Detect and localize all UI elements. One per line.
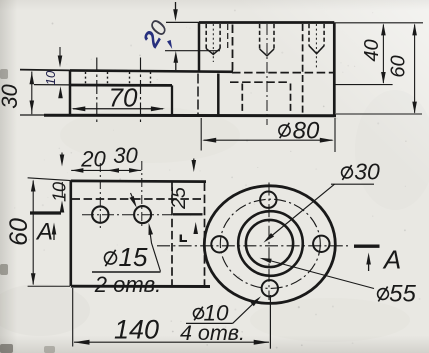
dimension 10 upper arrow: [59, 47, 61, 62]
dimension 30 line with arrows (left): [31, 72, 33, 115]
plan dimension 10 lower arrow: [61, 206, 63, 212]
section arrow right: [368, 258, 370, 271]
note underline: [92, 271, 161, 273]
extension of cylinder top edge to the right: [334, 22, 423, 24]
dimension 25 upper arrow: [193, 159, 195, 166]
thick section segment on centre line: [173, 213, 203, 215]
section plane mark A (right): [354, 244, 380, 247]
svg-text:25: 25: [168, 187, 190, 210]
front view: bottom edge of part: [20, 114, 44, 116]
svg-text:15: 15: [119, 242, 148, 272]
extension of cylinder top edge to the left: [166, 21, 199, 23]
front view: top edge of base plate: [20, 69, 70, 72]
plan view: hidden recess edge vertical: [171, 183, 173, 286]
hidden line: bore bottom depth 40: [230, 81, 288, 83]
leader line from note to hole 2: [149, 227, 160, 272]
extension line right of bottom edge: [336, 113, 422, 115]
inner bore circle diam 30: [246, 220, 293, 267]
front view: step line of plate: [34, 84, 70, 86]
plan view: hidden edge near circle: [204, 183, 206, 286]
bolt circle diam 55 (centre line): [220, 199, 320, 288]
blue arrowhead over dimension 20: [167, 40, 172, 49]
hidden left edge of cylinder below plate top: [197, 74, 199, 115]
section plane mark A (left): [30, 211, 61, 214]
dimensions 20 and 30 line: [71, 169, 141, 171]
drilled hole middle: hidden edges: [259, 24, 261, 49]
plan view: left edge: [70, 181, 73, 286]
svg-text:4 отв.: 4 отв.: [180, 321, 245, 345]
diameter 80 dimension line: [204, 139, 333, 141]
front view: inner vertical edge: [217, 74, 220, 116]
hole 1 axis line in front view: [96, 58, 98, 125]
hole 1 vertical centre line: [99, 163, 101, 228]
plan dimension 10 upper arrow: [61, 153, 63, 161]
svg-text:30: 30: [0, 84, 22, 109]
plan view: bottom edge: [71, 285, 210, 288]
extension line for 40: [335, 84, 393, 86]
scan smudge left edge: [0, 264, 8, 275]
dimension 70 arrows and line: [73, 108, 163, 110]
svg-text:A: A: [382, 245, 401, 275]
bolt hole right (diam 10): [313, 236, 329, 252]
svg-text:140: 140: [114, 315, 159, 345]
drilled hole middle: cone bottom: [260, 49, 274, 56]
svg-text:2 отв.: 2 отв.: [94, 272, 162, 297]
dimension 10 lower arrow: [60, 91, 62, 97]
scan smudge left edge upper: [0, 69, 8, 79]
svg-text:10: 10: [50, 182, 70, 202]
hole 2 vertical centre line: [141, 161, 143, 228]
underline of diam 30 note: [331, 183, 374, 185]
scan smudge bottom: [44, 346, 55, 353]
note diam 15 symbol: [103, 248, 119, 268]
middle boss circle: [238, 211, 303, 276]
section arrow left: [53, 229, 55, 240]
plan view: hidden step edge: [72, 198, 203, 200]
drilled hole left: extra hidden edge: [227, 24, 229, 49]
diameter 80 symbol: [277, 121, 291, 140]
bolt hole left (diam 10): [211, 236, 227, 252]
plan view: top edge: [71, 180, 206, 183]
note diam 10 underline: [186, 322, 233, 324]
vertical centre line of flange: [268, 183, 270, 301]
extension line: bore bottom depth 20: [165, 50, 220, 52]
hole 1 hidden edges in step strip: [85, 72, 87, 85]
front view: left edge of plate: [69, 70, 72, 115]
svg-text:30: 30: [354, 159, 380, 185]
dimension 25 lower arrow: [195, 228, 197, 234]
drilled hole right: axis: [315, 24, 317, 70]
front view: right edge of cylinder: [333, 23, 336, 116]
bolt hole top (diam 10): [260, 192, 276, 208]
bolt hole bottom (diam 10): [262, 280, 278, 296]
outer flange circle diam 80: [204, 186, 335, 304]
dimension 140 line: [74, 341, 269, 343]
svg-text:A: A: [35, 219, 53, 246]
drilled hole right: hidden edges: [308, 24, 310, 46]
hole 2 axis line in front view: [140, 58, 142, 125]
note diam 30 symbol: [340, 163, 354, 181]
plan view: extension of top edge to the left: [28, 178, 71, 181]
note diam 10 symbol: [192, 305, 205, 322]
svg-text:70: 70: [109, 83, 138, 113]
dimension 40 line with arrows: [382, 25, 384, 84]
diameter 80 extension lines: [200, 118, 202, 151]
hidden vertical right of center: [302, 24, 304, 114]
dimension 20 (blue) lower arrow: [175, 59, 177, 70]
svg-text:40: 40: [361, 39, 383, 61]
horizontal centre line through holes / section trace: [82, 214, 172, 216]
tick mark below 25: [180, 235, 182, 243]
drilled hole left: hidden edges: [205, 24, 207, 49]
vertical extension to dimension 140: [269, 295, 271, 349]
svg-text:20: 20: [80, 147, 106, 172]
svg-text:10: 10: [43, 70, 58, 85]
svg-text:60: 60: [388, 55, 410, 77]
drilled hole left: axis: [212, 24, 214, 62]
svg-text:80: 80: [293, 118, 320, 145]
scan smudge bottom left corner: [0, 344, 13, 353]
horizontal centre line of flange: [157, 245, 348, 247]
hidden bore right edge below: [290, 84, 292, 114]
hole 1 circle (diam 15): [92, 206, 108, 222]
leader line for diam 10: [233, 301, 257, 324]
extension line for plan 60 bottom: [28, 285, 70, 287]
svg-text:30: 30: [113, 143, 138, 168]
front view: hidden step block right edge: [232, 25, 234, 73]
dimension 60 line with arrows (plan): [32, 181, 34, 285]
hidden line: plate top behind cylinder: [232, 72, 334, 74]
central axis line of cylinder: [266, 24, 268, 125]
svg-text:20: 20: [137, 16, 173, 52]
dimension 140 left extension: [72, 288, 74, 347]
svg-text:60: 60: [5, 218, 33, 246]
leader line for diam 55: [262, 259, 374, 289]
leader line for diam 30: [267, 184, 335, 240]
svg-text:55: 55: [389, 281, 416, 308]
hidden bore left edge below: [241, 84, 243, 114]
drilled hole left: cone bottom: [206, 49, 220, 55]
hole 2 circle (diam 15): [134, 206, 151, 223]
front view: top edge of cylinder: [199, 21, 334, 24]
dimension 60 line with arrows (right): [414, 25, 416, 113]
leader arrow to hole 2 upper left: [131, 193, 135, 202]
plan dimension 10 connector line: [61, 182, 63, 198]
front view: left edge of cylinder: [198, 23, 201, 72]
note diam 55 symbol: [376, 285, 390, 303]
dimension 20 (blue) upper arrow: [175, 2, 177, 13]
front view: right edge of 70 recess: [171, 85, 173, 115]
drilled hole right: cone bottom: [309, 46, 324, 54]
hole 2 hidden edges in step strip: [129, 72, 131, 85]
